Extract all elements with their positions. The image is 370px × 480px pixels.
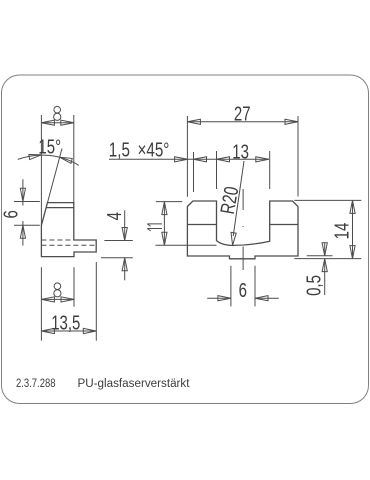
dim 13,5: extension line right: [95, 262, 97, 341]
dim 6 bottom: arrow pointing left: [255, 296, 268, 301]
dim 15deg: arrow at vertical line: [29, 155, 42, 160]
R20 arrowhead: [231, 232, 236, 245]
dim 14: arrow up: [350, 200, 355, 213]
dim 4 right: dimension line upper: [124, 210, 126, 240]
dim 11: arrow up: [162, 202, 167, 215]
svg-text:1,5 ×45°: 1,5 ×45°: [109, 139, 170, 162]
R20 leader line: [233, 161, 244, 236]
dim 6 bottom: extension line right: [254, 266, 256, 307]
svg-text:27: 27: [234, 102, 251, 125]
svg-text:14: 14: [330, 223, 353, 240]
dim 8 top: arrow left: [41, 120, 54, 125]
dim 13: extension line right: [269, 151, 271, 189]
dim 4 right: arrow up: [122, 258, 127, 271]
dim 6 left: arrow down: [20, 188, 25, 201]
svg-text:4: 4: [103, 212, 126, 220]
hidden edge dashed 1: [41, 239, 73, 241]
dim 11: text glyph 2: [147, 229, 162, 231]
dim 8 bottom: text 8 (circle glyph upper): [54, 283, 61, 290]
dim 0,5: arrow up: [322, 259, 327, 272]
dim 27: dimension line: [187, 121, 298, 123]
dim 13: arrow left: [217, 157, 230, 162]
dim 0,5: arrow down: [322, 243, 327, 256]
dim 6 bottom: arrow pointing right: [218, 296, 231, 301]
dim 27: extension line right: [297, 116, 299, 197]
dim 8 bottom: arrow left: [41, 297, 54, 302]
chamfer dim extension line: [193, 152, 195, 192]
svg-text:2.3.7.288: 2.3.7.288: [16, 378, 56, 390]
dim 11: extension line bottom: [155, 244, 216, 246]
centerline dot: [243, 226, 244, 228]
dim 13,5: dimension line: [41, 330, 96, 332]
centerline upper segment: [242, 189, 244, 210]
dim 14: dimension line: [352, 200, 354, 258]
chamfer arrow pointing right: [175, 157, 188, 162]
svg-text:R20: R20: [216, 185, 243, 216]
dim 14: arrow down: [350, 246, 355, 259]
dim 11: text: [147, 224, 162, 226]
dim 4 right: extension line top: [104, 240, 132, 242]
part outline right view: [187, 201, 298, 259]
dim 6 bottom: extension line left: [230, 266, 232, 307]
dim 11: extension line top: [156, 201, 182, 203]
chamfer arrow pointing left: [194, 157, 207, 162]
centerline lower segment: [242, 247, 244, 271]
dim 8 top: text 8 (circle glyph lower): [54, 113, 61, 120]
dim 6 bottom: dimension line left tail: [207, 297, 231, 299]
dim 15deg: arc: [18, 155, 79, 165]
dim 8 top: dimension line: [41, 122, 73, 124]
dim 27: arrow left: [187, 119, 200, 124]
dim 8 bottom: extension line right: [73, 267, 75, 307]
internal edge left wing: [187, 224, 216, 226]
internal edge right wing: [270, 224, 298, 226]
dim 11: arrow down: [162, 232, 167, 245]
dim 6 left: extension line top: [14, 201, 40, 203]
dim 6 left: arrow up: [20, 225, 25, 238]
dim 8 bottom: arrow right: [61, 297, 74, 302]
part outline left view: [41, 203, 96, 257]
dim 6 left: dimension line lower: [22, 221, 24, 246]
dim 6 left: dimension line upper: [22, 179, 24, 205]
dim 8 top: extension line left: [40, 115, 42, 225]
dim 13,5: arrow right: [83, 328, 96, 333]
chamfer edge line left view: [46, 207, 74, 209]
dim 27: extension line left: [186, 116, 188, 197]
dim 8 bottom: dimension line: [41, 298, 74, 300]
svg-text:13,5: 13,5: [51, 311, 80, 334]
svg-text:6: 6: [239, 279, 247, 302]
dim 13,5: arrow left: [41, 328, 54, 333]
svg-text:PU-glasfaserverstärkt: PU-glasfaserverstärkt: [78, 378, 191, 390]
dim 4 right: extension line bottom: [101, 257, 133, 259]
slant edge extension 15deg: [48, 149, 63, 203]
dim 8 top: arrow right: [61, 120, 74, 125]
dim 8 top: text 8 (circle glyph upper): [54, 106, 61, 113]
dim 8 top: extension line right: [73, 115, 75, 203]
dim 0,5: dimension line lower: [324, 259, 326, 295]
svg-text:15°: 15°: [38, 135, 61, 158]
chamfer + 13 shared dimension line: [109, 158, 269, 160]
svg-text:6: 6: [0, 210, 22, 218]
dim 11: dimension line: [163, 202, 165, 246]
dim 4 right: arrow down: [122, 228, 127, 241]
dim 27: arrow right: [285, 119, 298, 124]
svg-text:0,5: 0,5: [302, 275, 325, 296]
svg-text:13: 13: [232, 140, 249, 163]
border frame: [2, 75, 369, 404]
dim 0,5: short extension line: [307, 255, 333, 257]
dim 15deg: arrow at slant line: [60, 157, 72, 163]
dim 8 bottom: extension line left: [40, 267, 42, 341]
dim 0,5: dimension line upper: [324, 243, 326, 256]
dim 6 left: extension line bottom: [14, 224, 40, 226]
dim 14: extension line top: [294, 199, 361, 201]
dim 8 bottom: text 8 (circle glyph lower): [54, 290, 61, 297]
hidden edge dashed 2: [41, 244, 96, 246]
dim 13: extension line left: [216, 151, 218, 189]
dim 6 bottom: dimension line right tail: [255, 297, 279, 299]
dim 13: arrow right: [256, 157, 269, 162]
dim 4 right: dimension line lower: [124, 258, 126, 281]
dim 14: extension line bottom: [294, 258, 361, 260]
